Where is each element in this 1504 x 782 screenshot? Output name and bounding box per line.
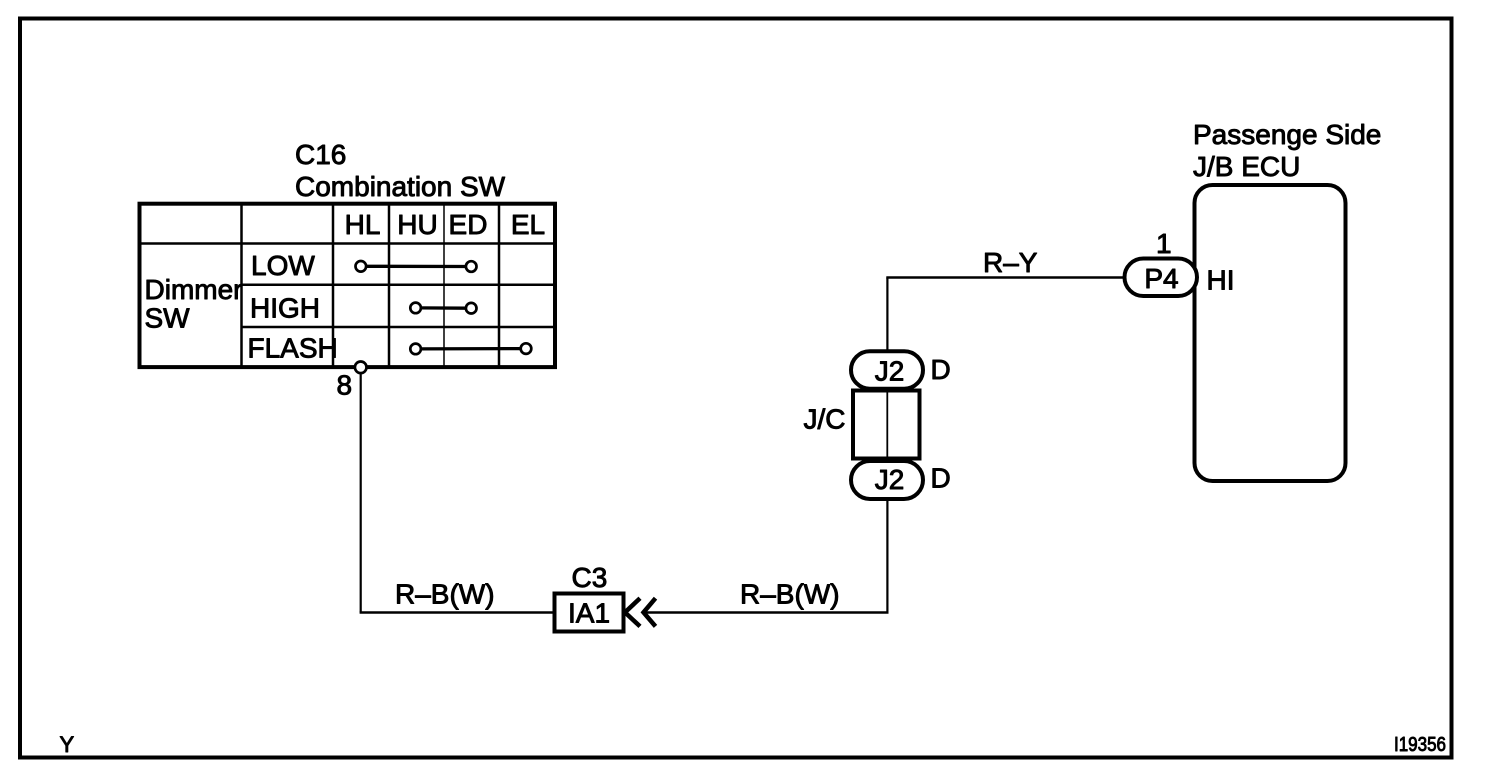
svg-text:ED: ED [449, 209, 488, 240]
switch contact FLASH: HU to EL [410, 343, 531, 354]
row label FLASH [248, 333, 338, 364]
ECU box Passenge Side J/B ECU [1195, 185, 1346, 481]
svg-text:D: D [931, 463, 951, 494]
page code Y [60, 732, 75, 757]
wire from arrows to junction [645, 611, 889, 613]
label D bottom [931, 463, 951, 494]
row label Dimmer SW [145, 274, 243, 334]
svg-text:Dimmer: Dimmer [145, 274, 243, 305]
label J/C [804, 404, 846, 435]
wire horizontal to P4 [886, 276, 1126, 278]
figure number I19356 [1394, 734, 1446, 756]
wire label R-B(W) left [395, 579, 495, 610]
column header HU [397, 209, 437, 240]
row label LOW [251, 250, 315, 281]
connector P4 oval [1125, 259, 1198, 297]
label Passenge Side [1193, 119, 1381, 150]
svg-text:R–B(W): R–B(W) [395, 579, 495, 610]
connector arrows (double chevron) [625, 598, 656, 626]
column header HL [345, 209, 381, 240]
wire from pin 8 down [360, 374, 362, 612]
svg-text:D: D [931, 354, 951, 385]
svg-text:R–B(W): R–B(W) [740, 579, 840, 610]
svg-text:I19356: I19356 [1394, 734, 1446, 756]
label C3 [572, 562, 608, 593]
connector J2 bottom oval [851, 461, 923, 499]
svg-text:1: 1 [1156, 228, 1172, 259]
label C16 [295, 139, 346, 170]
label HI [1207, 265, 1235, 296]
connector J2 top oval [851, 351, 923, 389]
svg-text:HL: HL [345, 209, 381, 240]
connector C3 box IA1 [555, 594, 624, 632]
svg-text:IA1: IA1 [568, 598, 610, 629]
svg-text:HI: HI [1207, 265, 1235, 296]
svg-text:HIGH: HIGH [250, 293, 320, 324]
column header EL [511, 209, 545, 240]
svg-text:EL: EL [511, 209, 545, 240]
svg-text:J/B ECU: J/B ECU [1193, 151, 1300, 182]
label D top [931, 354, 951, 385]
pin 8 terminal node [355, 362, 367, 374]
svg-text:C16: C16 [295, 139, 346, 170]
wire label R-B(W) right [740, 579, 840, 610]
svg-text:8: 8 [337, 370, 353, 401]
junction connector J/C box [853, 391, 920, 459]
svg-text:Y: Y [60, 732, 75, 757]
svg-text:SW: SW [145, 303, 191, 334]
connector table C16 grid [140, 204, 556, 368]
wire label R-Y [983, 247, 1038, 278]
svg-text:C3: C3 [572, 562, 608, 593]
row label HIGH [250, 293, 320, 324]
label Combination SW [295, 171, 506, 202]
svg-text:P4: P4 [1144, 263, 1178, 294]
svg-text:J2: J2 [875, 464, 905, 495]
svg-text:Combination SW: Combination SW [295, 171, 506, 202]
svg-text:J/C: J/C [804, 404, 846, 435]
svg-text:R–Y: R–Y [983, 247, 1038, 278]
label J/B ECU [1193, 151, 1300, 182]
pin label 1 [1156, 228, 1172, 259]
pin label 8 [337, 370, 353, 401]
column header ED [449, 209, 488, 240]
svg-text:FLASH: FLASH [248, 333, 338, 364]
svg-text:HU: HU [397, 209, 437, 240]
svg-text:LOW: LOW [251, 250, 315, 281]
switch contact LOW: HL to ED [356, 261, 477, 272]
svg-text:Passenge Side: Passenge Side [1193, 119, 1381, 150]
wire up to J2 bottom [886, 497, 888, 614]
wire horizontal to connector C3 [360, 611, 555, 613]
wire up from J2 top [886, 278, 888, 353]
svg-text:J2: J2 [875, 356, 905, 387]
switch contact HIGH: HU to ED [410, 303, 476, 314]
